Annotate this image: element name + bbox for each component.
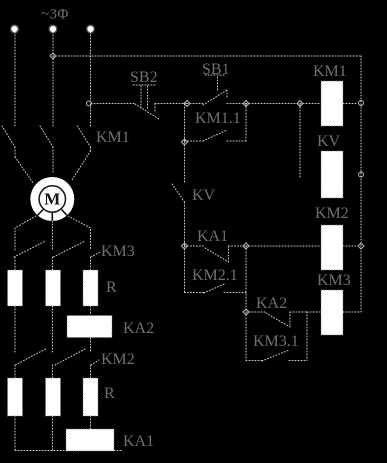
svg-text:KM2: KM2 [101, 351, 135, 368]
resistor R bank2 phase2 [46, 378, 61, 416]
wire relay KA2 to KM2 row phase3 [90, 338, 92, 352]
wire node E to coil KM2 [246, 245, 321, 247]
contactor KM1 main contact pole2 [40, 126, 53, 174]
svg-text:KM3: KM3 [101, 243, 135, 260]
contactor coil KM1 [321, 81, 343, 126]
terminal dot phase L3 [86, 24, 95, 33]
wire SB2 to node A [155, 103, 187, 105]
wire star point bottom [15, 450, 122, 452]
resistor R bank1 phase3 [83, 270, 98, 306]
relay contact KV normally-open [172, 184, 185, 202]
svg-text:KV: KV [317, 133, 341, 150]
svg-text:KA1: KA1 [123, 433, 154, 450]
svg-text:KA2: KA2 [123, 320, 154, 337]
wire node A down to KV contact [184, 142, 186, 184]
terminal dot phase L2 [48, 24, 57, 33]
relay contact KA1 normally-closed [185, 246, 247, 262]
wire coil KM3 to right rail corner [343, 311, 361, 313]
svg-text:KM1: KM1 [313, 63, 347, 80]
node junction KM1.1 bottom [182, 139, 188, 145]
wire rotor lead middle [52, 221, 54, 250]
contact KM1.1 self-holding branch [185, 104, 247, 141]
node junction at bus tap [50, 53, 56, 59]
resistor R bank2 phase3 [83, 378, 98, 416]
wire stator lead right diagonal [72, 151, 91, 180]
node junction A left of SB1 [184, 101, 190, 107]
svg-text:R: R [104, 385, 115, 402]
contactor KM2 shorting contact pole3 [91, 360, 100, 378]
wire L2 phase vertical [52, 32, 54, 126]
contactor KM3 shorting contact pole3 [91, 252, 101, 270]
svg-text:KM2: KM2 [315, 205, 349, 222]
contactor KM2 shorting contact pole2 [53, 349, 86, 378]
wire resistor bank1 to KM2 row phase2 [52, 306, 54, 352]
svg-text:KM2.1: KM2.1 [192, 267, 238, 284]
contact KM2.1 self-holding branch [185, 246, 247, 293]
node junction F KA2 row left [243, 309, 249, 315]
resistor R bank1 phase2 [46, 270, 61, 306]
svg-text:KM1.1: KM1.1 [195, 110, 241, 127]
wire KV contact to node D [184, 202, 186, 246]
wire resistor bank1 to KM2 row phase1 [14, 306, 16, 352]
svg-text:KV: KV [192, 187, 216, 204]
node junction E KM2 feed [243, 243, 249, 249]
relay coil KV [321, 151, 343, 198]
node junction right rail KM2 [358, 243, 364, 249]
wire stator lead left diagonal [15, 157, 33, 183]
motor M [30, 177, 74, 221]
wire KV coil branch [299, 104, 301, 177]
pushbutton SB1 normally-open [187, 75, 246, 105]
wire resistor bank2 to star point phase2 [52, 416, 54, 451]
svg-text:KM1: KM1 [96, 129, 130, 146]
node junction B right of SB1 [243, 101, 249, 107]
contactor KM3 shorting contact pole1 [14, 241, 46, 270]
wire node B to node C [246, 103, 300, 105]
relay coil KA2 [67, 316, 112, 338]
wire node C to coil KM1 [300, 103, 321, 105]
pushbutton SB2 normally-closed [133, 85, 159, 119]
wire resistor bank2 to relay KA1 phase3 [90, 416, 92, 429]
contact KM3.1 self-holding branch [246, 312, 307, 361]
svg-text:KA1: KA1 [197, 228, 228, 245]
svg-text:KA2: KA2 [256, 295, 287, 312]
wire rotor lead right [68, 216, 91, 250]
wire node E down to node F [245, 246, 247, 312]
node junction D KA1 row left [182, 243, 188, 249]
wire resistor bank1 to relay KA2 phase3 [90, 306, 92, 315]
wire rotor lead left [15, 216, 36, 250]
svg-text:SB2: SB2 [130, 69, 158, 86]
terminal circle right rail KV level [359, 172, 364, 177]
relay contact KA2 normally-closed [246, 312, 307, 327]
contactor KM1 main contact pole1 [2, 126, 15, 157]
svg-text:M: M [44, 190, 60, 209]
terminal circle right rail upper [359, 101, 364, 106]
wire control tap to SB2 [91, 103, 135, 105]
wire coil KM2 to right rail [343, 245, 358, 247]
contactor coil KM3 [321, 290, 343, 335]
wire coil KM1 to right rail [343, 103, 358, 105]
terminal dot phase L1 [10, 24, 19, 33]
svg-text:~3Φ: ~3Φ [41, 7, 69, 23]
svg-text:KM3: KM3 [317, 272, 351, 289]
terminal circle control tap on L3 [87, 101, 92, 106]
contactor KM1 main contact pole3 [78, 126, 91, 151]
contactor KM3 shorting contact pole2 [53, 241, 86, 270]
wire right supply rail [360, 56, 362, 312]
node junction C KV branch tap [297, 101, 303, 107]
svg-text:SB1: SB1 [202, 61, 230, 78]
svg-text:KM3.1: KM3.1 [253, 333, 299, 350]
resistor R bank1 phase1 [8, 270, 23, 306]
wire node F to coil KM3 [307, 311, 321, 313]
contactor coil KM2 [321, 225, 343, 270]
wire L1 phase vertical [14, 32, 16, 126]
resistor R bank2 phase1 [8, 378, 23, 416]
wire L3 phase vertical [90, 32, 92, 126]
wire control bus top [53, 55, 361, 57]
contactor KM2 shorting contact pole1 [15, 349, 46, 378]
relay coil KA1 [66, 429, 114, 451]
svg-text:R: R [106, 279, 117, 296]
wire resistor bank2 to star point phase1 [14, 416, 16, 450]
